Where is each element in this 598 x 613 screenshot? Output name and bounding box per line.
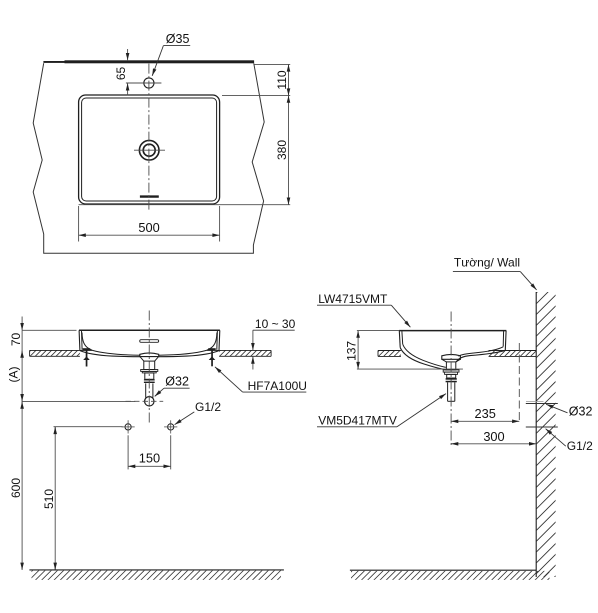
svg-text:137: 137 xyxy=(345,341,359,361)
svg-text:Ø32: Ø32 xyxy=(569,404,593,418)
svg-text:510: 510 xyxy=(42,489,56,509)
svg-text:(A): (A) xyxy=(7,367,21,383)
svg-text:70: 70 xyxy=(9,333,23,347)
svg-text:LW4715VMT: LW4715VMT xyxy=(318,292,388,306)
svg-text:65: 65 xyxy=(114,67,128,81)
svg-text:500: 500 xyxy=(138,220,159,235)
svg-text:380: 380 xyxy=(275,140,289,160)
svg-text:10 ~ 30: 10 ~ 30 xyxy=(255,317,296,331)
svg-text:150: 150 xyxy=(139,450,160,465)
svg-text:Ø32: Ø32 xyxy=(165,375,189,389)
svg-text:Ø35: Ø35 xyxy=(166,32,190,46)
svg-text:G1/2: G1/2 xyxy=(195,400,221,414)
svg-text:300: 300 xyxy=(483,429,504,444)
svg-text:G1/2: G1/2 xyxy=(567,439,593,453)
svg-text:Tường/ Wall: Tường/ Wall xyxy=(454,255,520,269)
svg-text:VM5D417MTV: VM5D417MTV xyxy=(318,413,397,427)
svg-text:600: 600 xyxy=(9,478,23,498)
svg-text:110: 110 xyxy=(275,70,289,89)
svg-text:HF7A100U: HF7A100U xyxy=(248,379,307,393)
svg-text:235: 235 xyxy=(475,406,496,421)
